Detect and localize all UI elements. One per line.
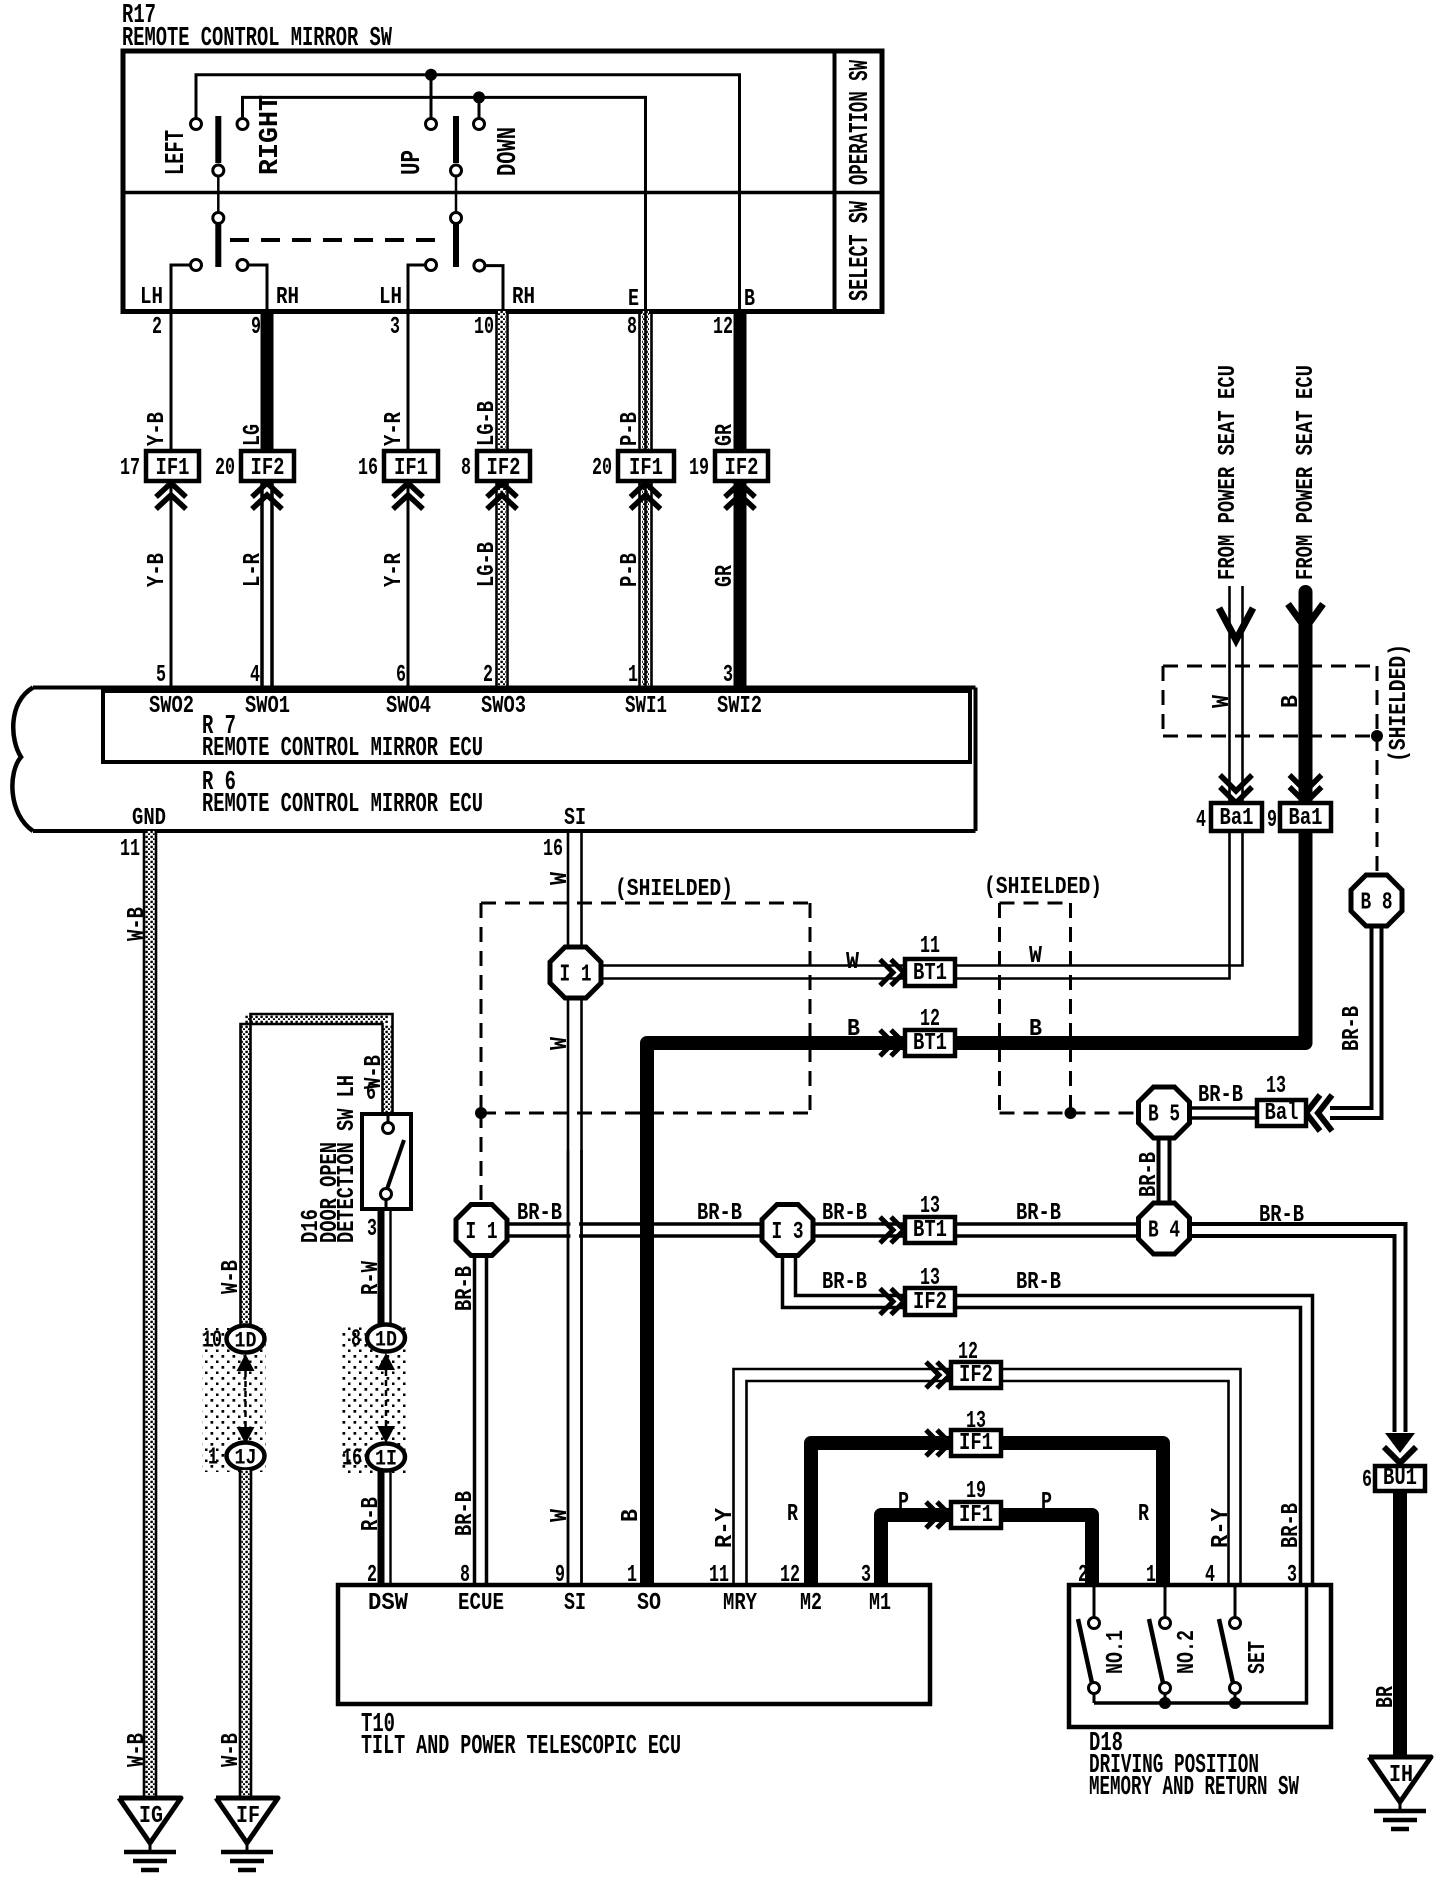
wire W from power seat ECU <box>1228 586 1231 803</box>
D18 internal bus to pin 3 <box>1094 1587 1307 1703</box>
select switch lower contacts LH/RH (right) <box>426 260 437 271</box>
svg-text:Y-R: Y-R <box>381 412 408 446</box>
svg-text:6: 6 <box>1362 1467 1372 1494</box>
svg-text:(SHIELDED): (SHIELDED) <box>1386 644 1413 762</box>
svg-text:SWO1: SWO1 <box>245 693 290 720</box>
wire W-B loop from 1D to D16 pin 6 <box>242 1025 250 1327</box>
ECU box R6 outline with break symbol <box>33 686 976 690</box>
svg-text:REMOTE CONTROL MIRROR ECU: REMOTE CONTROL MIRROR ECU <box>202 734 483 764</box>
junction octagon B 4 <box>1139 1203 1190 1254</box>
svg-text:ECUE: ECUE <box>458 1590 504 1617</box>
svg-text:P: P <box>898 1489 909 1516</box>
chevrons into 13 Bal (pointing left) <box>1306 1095 1320 1131</box>
wire LH contact to pin 2 <box>171 265 196 311</box>
wire BR-B B 5 to B 4 <box>1157 1137 1161 1205</box>
svg-text:W: W <box>846 949 860 976</box>
svg-text:R-W: R-W <box>358 1261 385 1295</box>
svg-text:Ba1: Ba1 <box>1289 805 1323 832</box>
svg-text:LH: LH <box>379 284 402 311</box>
svg-text:BR-B: BR-B <box>822 1269 867 1296</box>
svg-text:IF2: IF2 <box>725 455 759 482</box>
svg-text:DOWN: DOWN <box>494 127 524 176</box>
switch box R17 outline <box>123 51 882 312</box>
switch SET <box>1234 1587 1237 1617</box>
svg-text:LG-B: LG-B <box>474 542 501 587</box>
junction octagon I 3 <box>762 1205 813 1256</box>
switch NO.1 <box>1093 1587 1096 1617</box>
svg-text:UP: UP <box>398 150 428 175</box>
D16 switch contacts and blade <box>387 1114 390 1122</box>
switch contacts LEFT/RIGHT <box>191 119 202 130</box>
svg-text:BR-B: BR-B <box>517 1200 562 1227</box>
svg-text:Y-B: Y-B <box>144 553 171 587</box>
wire LG-B pin10 to SWO3 (shielded-look double) <box>498 311 506 690</box>
svg-text:W: W <box>1029 943 1043 970</box>
svg-text:10: 10 <box>202 1328 222 1355</box>
svg-text:R-Y: R-Y <box>712 1507 739 1548</box>
shield box (dashed) top right <box>1163 665 1377 668</box>
connector 19 IF2 <box>715 451 768 481</box>
svg-text:1J: 1J <box>235 1446 257 1471</box>
junction connector 10 1D <box>227 1326 265 1353</box>
svg-text:12: 12 <box>713 314 733 341</box>
svg-text:W-B: W-B <box>218 1260 245 1294</box>
svg-text:I 1: I 1 <box>466 1219 498 1246</box>
svg-text:BR-B: BR-B <box>1198 1082 1243 1109</box>
stipple shading around junction connectors 1D/1I <box>341 1326 408 1473</box>
shield drain dashed to B 8 <box>1376 736 1379 875</box>
connector 20 IF1 <box>618 451 674 481</box>
junction connector 1 1J <box>227 1443 265 1470</box>
chevron into 12 BT1 <box>880 1030 893 1056</box>
svg-text:RH: RH <box>276 284 299 311</box>
svg-text:1D: 1D <box>375 1328 397 1353</box>
door switch D16 box <box>362 1114 411 1209</box>
svg-text:Ba1: Ba1 <box>1220 805 1254 832</box>
svg-text:SO: SO <box>637 1590 661 1617</box>
svg-text:REMOTE CONTROL MIRROR ECU: REMOTE CONTROL MIRROR ECU <box>202 790 483 820</box>
svg-text:16: 16 <box>342 1446 362 1473</box>
svg-text:BR-B: BR-B <box>1278 1503 1305 1548</box>
wire: LEFT/UP common to pin B <box>196 75 740 311</box>
svg-text:M1: M1 <box>869 1590 891 1617</box>
chevron into 13 IF1 <box>926 1430 939 1456</box>
svg-text:E: E <box>628 286 639 313</box>
svg-text:(SHIELDED): (SHIELDED) <box>984 874 1102 901</box>
svg-text:P-B: P-B <box>617 412 644 446</box>
svg-text:IG: IG <box>139 1803 163 1830</box>
chevron into 12 IF2 <box>926 1362 939 1388</box>
svg-text:BT1: BT1 <box>913 960 947 987</box>
svg-text:IF1: IF1 <box>959 1430 993 1457</box>
svg-text:RIGHT: RIGHT <box>256 95 286 175</box>
connector 8 IF2 <box>477 451 530 481</box>
select switch lower contacts LH/RH <box>191 260 202 271</box>
wire LG pin9 (thick) <box>261 311 274 462</box>
junction octagon B 5 <box>1139 1087 1190 1138</box>
shield drain junction top right <box>1371 730 1383 742</box>
junction connector 8 1D <box>367 1325 405 1352</box>
svg-text:W: W <box>1209 694 1236 708</box>
svg-text:FROM POWER SEAT ECU: FROM POWER SEAT ECU <box>1215 365 1242 580</box>
svg-text:BR-B: BR-B <box>452 1266 479 1311</box>
wire R-B from 1I to DSW <box>378 1471 385 1585</box>
svg-text:IF2: IF2 <box>251 455 285 482</box>
svg-text:SI: SI <box>564 1590 586 1617</box>
svg-text:W: W <box>547 871 574 885</box>
svg-text:11: 11 <box>120 836 140 863</box>
svg-text:DSW: DSW <box>368 1590 409 1617</box>
wire BR from BU1 to ground IH (thick) <box>1393 1491 1407 1757</box>
svg-text:1I: 1I <box>375 1447 397 1472</box>
svg-text:3: 3 <box>367 1216 377 1243</box>
svg-text:1: 1 <box>628 662 638 689</box>
svg-text:IF2: IF2 <box>959 1362 993 1389</box>
svg-text:BR-B: BR-B <box>1259 1202 1304 1229</box>
wire BR-B from B 8 down to 13 Bal <box>1330 926 1382 1118</box>
svg-text:I 3: I 3 <box>772 1219 804 1246</box>
svg-text:I 1: I 1 <box>560 962 592 989</box>
shield drain dashed to B 5 <box>1071 1112 1140 1115</box>
svg-text:MEMORY AND RETURN SW: MEMORY AND RETURN SW <box>1089 1773 1300 1803</box>
svg-text:NO.1: NO.1 <box>1103 1630 1130 1674</box>
svg-text:BR-B: BR-B <box>1136 1152 1163 1197</box>
svg-text:W: W <box>547 1036 574 1050</box>
svg-text:B: B <box>1029 1016 1042 1043</box>
svg-text:SWO2: SWO2 <box>149 693 194 720</box>
svg-text:DETECTION SW LH: DETECTION SW LH <box>334 1075 361 1243</box>
junction octagon I 1 (lower) <box>456 1205 507 1256</box>
svg-text:SET: SET <box>1245 1641 1272 1674</box>
svg-text:RH: RH <box>512 284 535 311</box>
svg-text:20: 20 <box>592 455 612 482</box>
connector 17 IF1 <box>146 451 199 481</box>
operation switch blade (left pair) <box>215 116 221 163</box>
svg-text:Bal: Bal <box>1265 1100 1299 1127</box>
svg-text:OPERATION SW: OPERATION SW <box>846 59 876 185</box>
svg-text:BR: BR <box>1373 1686 1400 1708</box>
svg-text:LG: LG <box>240 424 267 446</box>
wire BR-B I 1 to I 3 to 13 BT1 to B 4 <box>482 1222 906 1226</box>
svg-text:IF2: IF2 <box>487 455 521 482</box>
junction octagon B 8 <box>1351 875 1402 926</box>
svg-text:B: B <box>847 1016 860 1043</box>
wire P from M1 to 19 IF1 to D18 pin 2 (thick) <box>881 1515 951 1585</box>
wire B (thick) from SO to BT1 and Ba1 <box>647 1043 905 1585</box>
wire BR-B B 5 to 13 Bal <box>1187 1106 1257 1110</box>
svg-text:Y-R: Y-R <box>381 553 408 587</box>
svg-text:16: 16 <box>358 455 378 482</box>
ganged switch link (dashed) <box>230 238 445 242</box>
svg-text:TILT AND POWER TELESCOPIC ECU: TILT AND POWER TELESCOPIC ECU <box>361 1732 681 1762</box>
shield drain junction <box>475 1107 487 1119</box>
svg-text:SI: SI <box>564 805 586 832</box>
svg-text:BR-B: BR-B <box>697 1200 742 1227</box>
svg-text:IH: IH <box>1389 1762 1413 1789</box>
ECU box T10 <box>338 1585 930 1704</box>
switch box D18 <box>1069 1585 1331 1727</box>
wire W-B from GND to ground IG <box>146 831 155 1798</box>
wire W-B from 1J to ground IF <box>242 1470 250 1798</box>
svg-text:8: 8 <box>461 455 471 482</box>
ground IH <box>1369 1757 1431 1802</box>
svg-text:13: 13 <box>1266 1073 1286 1100</box>
operation switch blade (right pair) <box>453 116 459 163</box>
svg-text:LEFT: LEFT <box>162 130 192 175</box>
svg-text:SWO4: SWO4 <box>386 693 431 720</box>
svg-text:IF1: IF1 <box>156 455 190 482</box>
svg-text:BR-B: BR-B <box>822 1200 867 1227</box>
svg-text:BT1: BT1 <box>913 1217 947 1244</box>
svg-text:6: 6 <box>366 1080 376 1107</box>
wire W from I 1 to BT1 and Ba1 <box>601 831 1230 979</box>
svg-text:MRY: MRY <box>723 1590 757 1617</box>
svg-text:11: 11 <box>920 933 940 960</box>
wire L-R to SWO1 (double) <box>260 462 264 690</box>
svg-text:R-B: R-B <box>358 1497 385 1531</box>
svg-text:6: 6 <box>396 662 406 689</box>
svg-text:FROM POWER SEAT ECU: FROM POWER SEAT ECU <box>1293 365 1320 580</box>
svg-text:16: 16 <box>543 836 563 863</box>
svg-text:LH: LH <box>140 284 163 311</box>
svg-text:BR-B: BR-B <box>1016 1200 1061 1227</box>
wire: RIGHT/DOWN common to pin E <box>243 97 646 311</box>
svg-text:B 5: B 5 <box>1148 1102 1180 1129</box>
svg-text:3: 3 <box>723 662 733 689</box>
svg-text:B: B <box>744 286 755 313</box>
shield drain dashed to I 1 <box>480 1113 483 1203</box>
chevrons into 4 Ba1 <box>1220 775 1252 791</box>
svg-text:IF1: IF1 <box>394 455 428 482</box>
select switch blade (right pair) <box>455 176 458 212</box>
wire RH contact to pin 9 <box>243 265 268 311</box>
node junction above UP contact <box>425 69 437 81</box>
chevron into 13 IF2 <box>880 1289 893 1315</box>
svg-text:1D: 1D <box>235 1329 257 1354</box>
wire GR pin12 to SWI2 (thick) <box>734 311 747 690</box>
wire BR-B I 3 down and right to 13 IF2 <box>783 1250 906 1308</box>
svg-text:Y-B: Y-B <box>144 412 171 446</box>
svg-text:BR-B: BR-B <box>452 1491 479 1536</box>
svg-text:R: R <box>787 1501 798 1528</box>
svg-text:BU1: BU1 <box>1383 1465 1417 1492</box>
wire BR-B 13 IF2 to D18 pin 3 <box>955 1296 1313 1586</box>
wire LH contact to pin 3 <box>408 265 431 311</box>
svg-text:BR-B: BR-B <box>1016 1269 1061 1296</box>
svg-text:SWI2: SWI2 <box>717 693 762 720</box>
ground IG <box>119 1798 181 1843</box>
svg-text:W-B: W-B <box>124 1733 151 1767</box>
svg-text:LG-B: LG-B <box>474 401 501 446</box>
svg-text:(SHIELDED): (SHIELDED) <box>615 876 733 903</box>
svg-text:10: 10 <box>474 314 494 341</box>
svg-text:9: 9 <box>251 314 261 341</box>
chevron into 11 BT1 <box>880 960 893 986</box>
svg-text:20: 20 <box>215 455 235 482</box>
svg-text:B 4: B 4 <box>1148 1218 1180 1245</box>
chevron into 13 BT1 <box>880 1217 893 1243</box>
svg-text:W-B: W-B <box>218 1733 245 1767</box>
wire R-Y from MRY to 12 IF2 to D18 pin 4 <box>734 1369 952 1585</box>
svg-text:M2: M2 <box>800 1590 822 1617</box>
svg-text:SWO3: SWO3 <box>481 693 526 720</box>
connector 20 IF2 <box>241 451 294 481</box>
junction octagon I 1 on SI wire <box>550 947 601 998</box>
svg-text:SELECT SW: SELECT SW <box>846 200 876 301</box>
svg-text:B: B <box>1278 695 1305 708</box>
chevrons into 9 Ba1 <box>1290 775 1322 791</box>
svg-text:SWI1: SWI1 <box>625 693 667 720</box>
node junction above DOWN contact <box>473 91 485 103</box>
svg-text:1: 1 <box>208 1445 218 1472</box>
svg-text:GND: GND <box>132 805 166 832</box>
wire RH contact to pin 10 <box>479 266 503 311</box>
arrow between 1D and 1I <box>377 1353 395 1370</box>
wire BR-B B 4 to 6 BU1 <box>1188 1224 1406 1432</box>
svg-text:P: P <box>1041 1489 1052 1516</box>
wire W SI crossing over BR-B row <box>570 1150 579 1585</box>
svg-text:19: 19 <box>689 455 709 482</box>
svg-text:5: 5 <box>156 662 166 689</box>
svg-text:B 8: B 8 <box>1361 890 1393 917</box>
wire W (SI) from R6 to T10 <box>567 831 570 1585</box>
svg-text:4: 4 <box>250 662 260 689</box>
svg-text:2: 2 <box>483 662 493 689</box>
connector 16 IF1 <box>384 451 438 481</box>
svg-text:8: 8 <box>627 314 637 341</box>
stipple shading around junction connectors 1D/1J <box>202 1328 266 1472</box>
wire R-W from D16 to 1D <box>378 1209 385 1327</box>
wire Y-B pin2 to SWO2 <box>170 311 173 690</box>
ECU box R7 outline <box>103 691 970 762</box>
wire Y-R pin3 to SWO4 <box>407 311 410 690</box>
chevrons into 6 BU1 <box>1385 1433 1415 1453</box>
svg-text:4: 4 <box>1196 807 1206 834</box>
svg-text:BR-B: BR-B <box>1339 1006 1366 1051</box>
junction connector 16 1I <box>367 1444 405 1471</box>
arrow between 1D and 1J <box>237 1354 255 1371</box>
svg-text:2: 2 <box>152 314 162 341</box>
svg-text:17: 17 <box>120 455 140 482</box>
switch contacts UP/DOWN <box>426 119 437 130</box>
svg-text:GR: GR <box>712 424 739 446</box>
svg-text:8: 8 <box>351 1327 361 1354</box>
switch NO.2 <box>1164 1587 1167 1617</box>
svg-text:3: 3 <box>390 314 400 341</box>
svg-text:L-R: L-R <box>240 553 267 587</box>
svg-text:IF1: IF1 <box>959 1502 993 1529</box>
wire R from M2 to 13 IF1 to D18 pin 1 (thick) <box>811 1443 951 1585</box>
wire B from power seat ECU (thick) <box>1299 592 1313 803</box>
svg-text:IF1: IF1 <box>629 455 663 482</box>
svg-text:IF: IF <box>236 1803 260 1830</box>
wire P-B pin8 to SWI1 (triple) <box>642 311 649 690</box>
shield drain junction 2 <box>1065 1107 1077 1119</box>
svg-text:9: 9 <box>1267 807 1277 834</box>
svg-text:R: R <box>1138 1501 1149 1528</box>
ground IF <box>216 1798 278 1843</box>
select switch blade (left pair) <box>217 176 220 212</box>
svg-text:NO.2: NO.2 <box>1174 1630 1201 1674</box>
svg-text:W: W <box>547 1508 574 1522</box>
svg-text:W-B: W-B <box>124 907 151 941</box>
svg-text:R-Y: R-Y <box>1208 1507 1235 1548</box>
wire BR-B I 1 down to ECUE <box>473 1254 477 1585</box>
chevron into 19 IF1 <box>926 1502 939 1528</box>
svg-text:GR: GR <box>712 565 739 587</box>
svg-text:BT1: BT1 <box>913 1030 947 1057</box>
svg-text:P-B: P-B <box>617 553 644 587</box>
svg-text:IF2: IF2 <box>913 1289 947 1316</box>
